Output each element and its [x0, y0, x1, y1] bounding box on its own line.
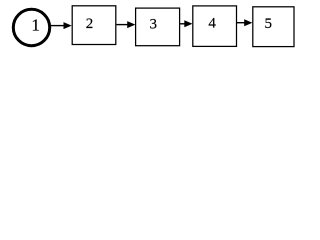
svg-text:5: 5	[264, 16, 272, 32]
wire arrow A4	[237, 19, 253, 26]
node circle 1	[13, 9, 49, 45]
wire arrow A3	[180, 20, 192, 27]
wire arrow A1	[51, 22, 72, 29]
box 4	[193, 6, 237, 47]
box 3	[136, 8, 180, 46]
wire arrow A2	[117, 21, 136, 28]
svg-text:4: 4	[208, 16, 216, 32]
svg-text:2: 2	[86, 16, 94, 32]
svg-text:3: 3	[150, 17, 158, 33]
box 2	[72, 6, 116, 45]
svg-text:1: 1	[31, 16, 40, 35]
box 5	[253, 7, 294, 47]
